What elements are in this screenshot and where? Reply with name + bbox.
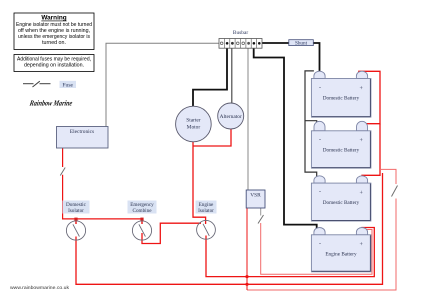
wire: busbar to engine battery negative bbox=[254, 48, 317, 229]
busbar bbox=[219, 30, 262, 48]
svg-text:Starter: Starter bbox=[186, 118, 201, 124]
svg-text:Rainbow Marine: Rainbow Marine bbox=[28, 99, 73, 108]
wire: domestic isolator bus bbox=[76, 173, 383, 284]
emergency combine SW2 bbox=[128, 201, 157, 241]
wire: busbar to VSR bbox=[247, 48, 249, 190]
svg-text:-: - bbox=[319, 190, 321, 196]
domestic battery 1 bbox=[311, 71, 371, 117]
wire: VSR to bottom bus bbox=[246, 208, 248, 290]
junction dot bbox=[245, 283, 248, 286]
domestic isolator SW1 bbox=[63, 201, 90, 241]
shunt bbox=[289, 40, 314, 47]
wire: engine isolator to engine battery positive bbox=[206, 228, 374, 277]
svg-text:Alternator: Alternator bbox=[220, 114, 242, 120]
wire: busbar to alternator bbox=[231, 48, 233, 103]
svg-text:Fuse: Fuse bbox=[62, 82, 73, 88]
svg-text:Motor: Motor bbox=[187, 124, 201, 130]
wire: alternator join bbox=[193, 129, 231, 146]
starter motor M1 bbox=[176, 106, 212, 142]
svg-text:Isolator: Isolator bbox=[198, 208, 214, 214]
engine isolator SW3 bbox=[196, 201, 217, 240]
fuse F1 on domestic feed bbox=[392, 186, 398, 197]
junction dot domestic isolator top bbox=[74, 218, 77, 221]
electronics box bbox=[57, 127, 109, 149]
fuse F3 on electronics feed bbox=[60, 168, 65, 176]
svg-text:Warning: Warning bbox=[41, 15, 66, 22]
wire: busbar to starter motor bbox=[193, 48, 227, 106]
domestic battery 3 bbox=[311, 176, 371, 221]
svg-text:Engine Battery: Engine Battery bbox=[325, 252, 357, 258]
VSR relay bbox=[246, 190, 265, 208]
wire: busbar to electronics bbox=[106, 43, 219, 126]
wire: stub into emergency combine bbox=[141, 219, 143, 224]
wire: domestic positive to fuse line bbox=[380, 169, 396, 184]
alternator G1 bbox=[218, 103, 244, 129]
svg-text:-: - bbox=[319, 85, 321, 91]
engine battery bbox=[311, 227, 371, 271]
svg-text:Domestic Battery: Domestic Battery bbox=[323, 96, 360, 102]
wire: busbar to shunt bbox=[259, 42, 289, 44]
svg-text:Electronics: Electronics bbox=[70, 129, 94, 135]
svg-text:VSR: VSR bbox=[250, 193, 261, 199]
wire: starter motor to engine isolator bbox=[193, 142, 206, 224]
svg-text:Combine: Combine bbox=[132, 208, 152, 214]
svg-text:Domestic Battery: Domestic Battery bbox=[323, 148, 360, 154]
wire: domestic battery positive chain bbox=[359, 71, 380, 178]
svg-text:Domestic Battery: Domestic Battery bbox=[323, 200, 360, 206]
svg-text:Isolator: Isolator bbox=[68, 208, 84, 214]
domestic battery 2 bbox=[311, 121, 371, 168]
legend fuse label bbox=[60, 81, 77, 89]
svg-text:turned on.: turned on. bbox=[42, 40, 66, 46]
svg-text:www.rainbowmarine.co.uk: www.rainbowmarine.co.uk bbox=[10, 285, 70, 291]
fuse F2 on VSR output bbox=[258, 215, 264, 224]
svg-text:-: - bbox=[319, 137, 321, 143]
svg-text:depending on installation.: depending on installation. bbox=[24, 63, 84, 69]
junction dot bbox=[245, 275, 248, 278]
legend fuse symbol bbox=[23, 81, 51, 87]
wire: emergency combine to engine isolator bbox=[142, 223, 201, 243]
wire: VSR to engine battery positive bbox=[260, 208, 262, 216]
svg-text:Shunt: Shunt bbox=[295, 41, 308, 47]
junction dot emergency combine top bbox=[140, 218, 143, 221]
svg-text:Busbar: Busbar bbox=[233, 30, 248, 36]
note box bbox=[14, 55, 94, 72]
wire: shunt to domestic battery 1 negative bbox=[313, 43, 319, 73]
warning box bbox=[14, 13, 94, 50]
wire: stub into domestic isolator bbox=[75, 219, 77, 224]
svg-text:-: - bbox=[319, 241, 321, 247]
wire: electronics to isolator bus bbox=[62, 148, 64, 167]
wire: domestic battery negative bus bbox=[305, 71, 317, 178]
wire: fuse line down to bottom bus bbox=[247, 199, 396, 291]
